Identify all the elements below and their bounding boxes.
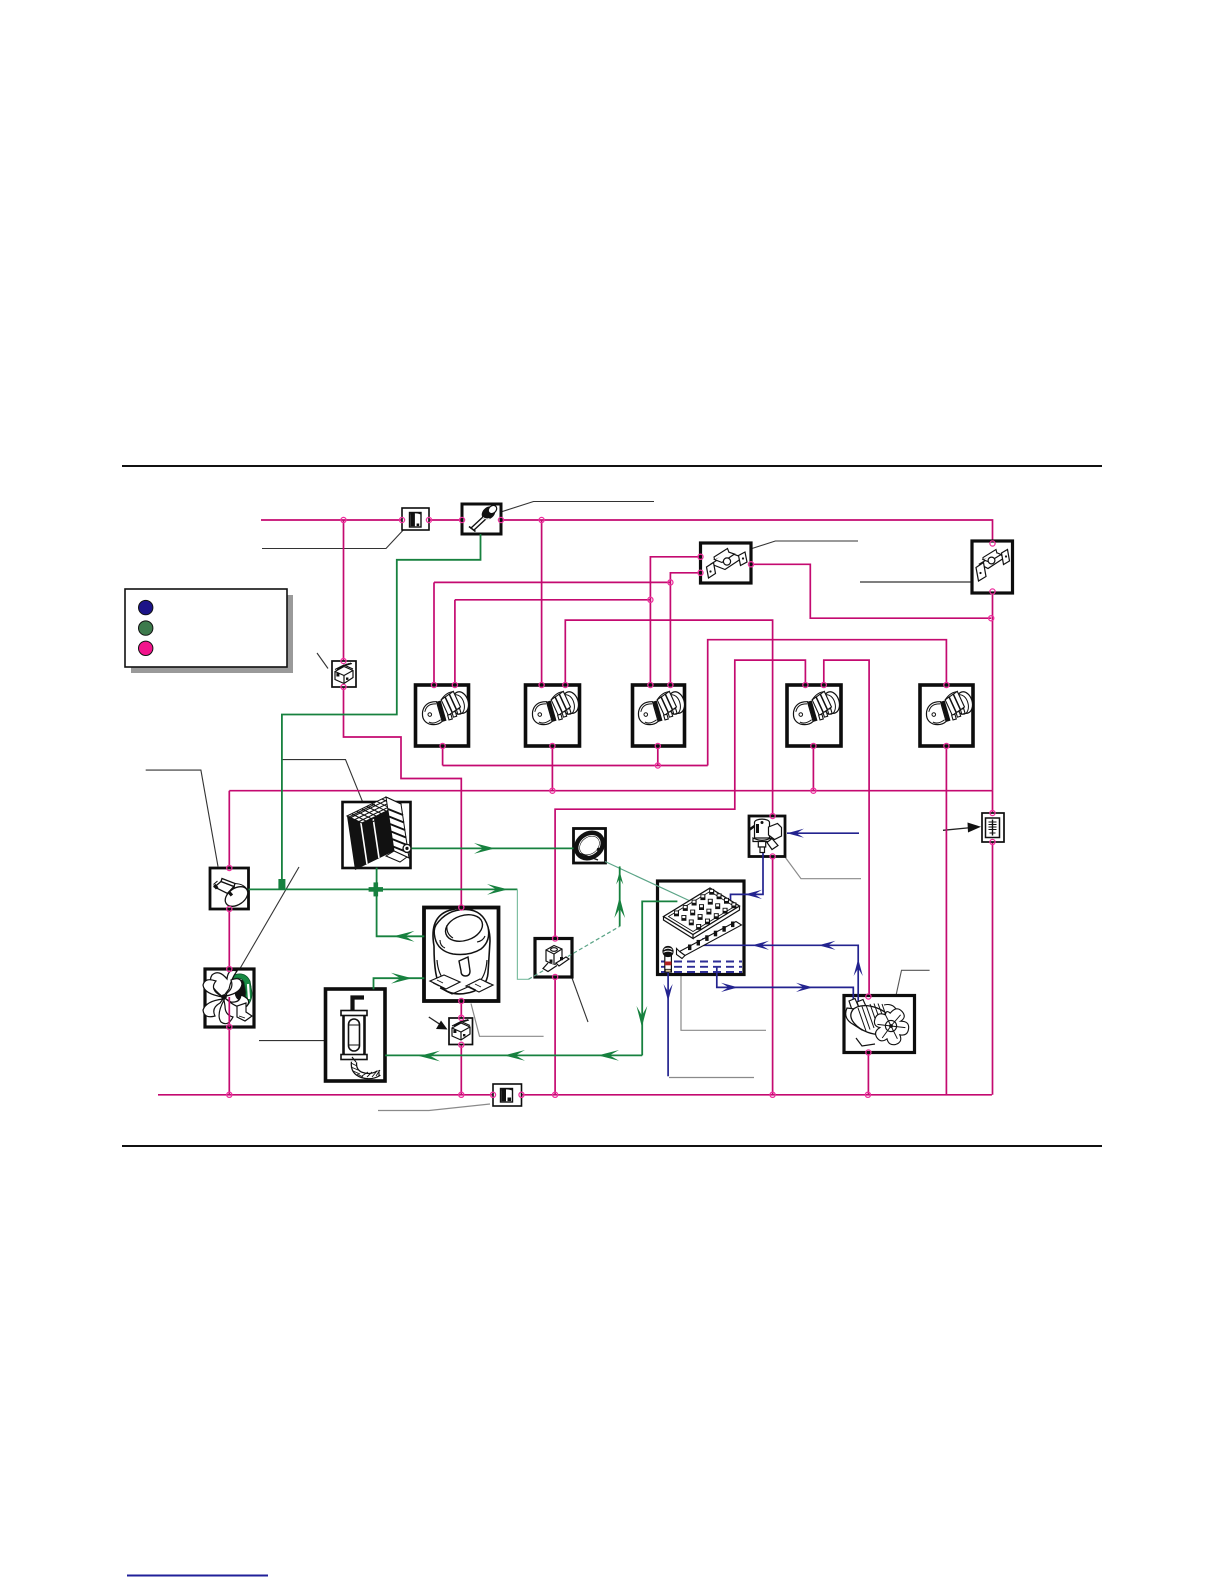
water pump box: [844, 996, 915, 1053]
fuse F1 icon: [410, 513, 422, 528]
wire drop from L1 bus to terminal block TB1: [343, 520, 345, 661]
node junction 12: [748, 562, 753, 567]
node junction 25: [944, 682, 949, 687]
leader to condenser: [282, 760, 363, 802]
flow arrow return line left 3: [419, 1051, 440, 1062]
wire L1 top bus left segment: [261, 519, 402, 521]
wire through fan box: [228, 997, 230, 1027]
node junction 34: [227, 865, 232, 870]
node junction 1: [341, 517, 346, 522]
condenser fan motor box: [205, 969, 254, 1027]
water flow arrow sump line right 1: [721, 983, 738, 992]
legend dot water: [139, 641, 153, 655]
tube header line: [249, 888, 518, 890]
node junction 11: [698, 570, 703, 575]
condenser fan motor icon: [203, 970, 254, 1023]
sump water dashes: [661, 962, 742, 973]
node junction 37: [227, 1024, 232, 1029]
wire terminal block to neutral bus: [460, 1045, 462, 1095]
node junction 5: [498, 517, 503, 522]
water flow arrow spray line left 1: [752, 941, 769, 950]
node junction 35: [227, 906, 232, 911]
water flow arrow riser to spray up: [854, 959, 863, 976]
wire contactor C5 return drop to neutral bus: [945, 746, 947, 1095]
wire water valve to neutral bus drop: [772, 857, 774, 1095]
leader to water pump: [896, 970, 930, 995]
node junction 41: [459, 1042, 464, 1047]
node junction 52: [490, 1092, 495, 1097]
node junction 53: [519, 1092, 524, 1097]
node junction 9: [989, 616, 994, 621]
wire contactor C4 terminal 2 to water pump feed: [824, 660, 869, 996]
leader to compressor: [471, 1004, 544, 1037]
contactor C5 box: [920, 685, 973, 746]
node junction 55: [770, 1092, 775, 1097]
tube header corner drop: [517, 889, 528, 979]
high-pressure cutout box: [462, 504, 501, 534]
node junction 45: [990, 839, 995, 844]
water solenoid valve icon: [753, 819, 782, 852]
flow arrow condenser to clamp right: [474, 843, 495, 854]
leader to float switch: [669, 1077, 754, 1079]
contactor C5 icon: [922, 688, 976, 727]
tube drier to compressor suction: [374, 978, 425, 989]
tube condenser to clamp: [410, 847, 573, 849]
tube riser to clamp diagonal: [619, 866, 621, 926]
wire contactor C4 return drop: [812, 746, 814, 791]
node junction 23: [803, 682, 808, 687]
toggle switch S1 box: [701, 543, 752, 583]
cleaner heater element icon: [986, 818, 1000, 838]
wire return bus upper: [443, 765, 708, 767]
contactor C3 box: [633, 685, 685, 746]
contactor C4 box: [787, 685, 841, 746]
evaporator plate icon: [664, 888, 740, 939]
terminal block TB1 icon: [335, 663, 353, 684]
contactor C1 box: [416, 685, 469, 746]
wire fan motor to neutral bus: [228, 1027, 230, 1095]
leader to drier: [259, 1040, 326, 1042]
condenser coil icon: [347, 797, 411, 870]
flow arrow evaporator drop down: [637, 1006, 648, 1027]
node junction 49: [866, 1050, 871, 1055]
node junction 46: [553, 936, 558, 941]
water solenoid valve box: [749, 816, 785, 857]
node junction 8: [990, 589, 995, 594]
wire heater to neutral bus drop: [992, 842, 994, 1095]
compressor icon: [430, 908, 493, 994]
wire return bus to bin thermostat: [228, 791, 230, 868]
node junction 29: [811, 743, 816, 748]
tube evaporator inlet: [642, 901, 677, 1055]
rocker switch S2 icon: [976, 550, 1010, 582]
flow arrow on header line right: [487, 884, 508, 895]
node junction 7: [990, 541, 995, 546]
fuse F2 icon: [501, 1089, 513, 1103]
node junction 19: [539, 682, 544, 687]
node junction 42: [770, 813, 775, 818]
wire neutral bus right segment: [522, 1094, 992, 1096]
cleaner heater box: [982, 813, 1004, 842]
tube condenser outlet drop: [376, 868, 378, 890]
leader to condenser fan motor: [240, 867, 299, 969]
tube clamp diagonal to evaporator: [605, 862, 689, 901]
wire contactor C3 return drop: [657, 746, 659, 766]
wire L1 top bus mid segment: [429, 519, 462, 521]
node junction 10: [698, 554, 703, 559]
wire drop to C1 terminal 1: [433, 582, 435, 685]
wire contactor C4 terminal 1 to start relay feed: [555, 660, 805, 938]
fuse F2 box: [493, 1084, 522, 1106]
water flow arrow to distributor: [745, 890, 762, 899]
leader to fuse F2: [378, 1104, 490, 1111]
wire switch S2 to heater drop: [992, 593, 994, 791]
node junction 50: [227, 1092, 232, 1097]
tube riser diagonal from relay area: [528, 926, 619, 979]
water pump icon: [846, 999, 909, 1047]
leader to evaporator assembly: [681, 975, 766, 1030]
node junction 20: [563, 682, 568, 687]
water flow arrow sump line right 2: [796, 983, 813, 992]
legend box: [125, 589, 287, 667]
hose clamp icon: [572, 829, 607, 863]
node junction 40: [459, 1015, 464, 1020]
tube HPCO sensing line: [282, 534, 481, 888]
bin thermostat icon: [215, 879, 252, 911]
legend dot electrical: [139, 600, 153, 614]
compressor terminal block icon: [452, 1020, 470, 1041]
wire compressor to terminal block: [460, 1001, 462, 1018]
wire return bus lower: [229, 790, 992, 792]
flow arrow to drier left: [394, 931, 415, 942]
water line spray to pump: [703, 938, 858, 1002]
node junction 13: [668, 580, 673, 585]
water flow arrow into valve: [787, 829, 804, 838]
legend dot refrigeration: [139, 621, 153, 635]
water line valve inlet: [787, 832, 859, 834]
contactor C3 icon: [634, 688, 688, 727]
top horizontal rule: [122, 465, 1102, 467]
drier box: [326, 989, 386, 1081]
water line valve outlet to distributor: [731, 852, 764, 902]
node junction 17: [431, 682, 436, 687]
terminal block TB1 box: [332, 661, 356, 687]
node junction 21: [648, 682, 653, 687]
node junction 18: [452, 682, 457, 687]
node junction 16: [341, 684, 346, 689]
compressor box: [424, 908, 499, 1002]
wire bus to contactor C5 feed: [708, 640, 947, 766]
wire heater drop into box: [992, 791, 994, 813]
node junction 4: [459, 517, 464, 522]
node junction 33: [811, 788, 816, 793]
junction tee green: [278, 879, 285, 889]
node junction 39: [459, 998, 464, 1003]
node junction 14: [648, 597, 653, 602]
junction cross green: [369, 882, 383, 896]
water line float drain: [667, 962, 669, 1076]
node junction 31: [655, 763, 660, 768]
wire neutral bus left segment: [158, 1094, 493, 1096]
leader to terminal block TB1: [317, 653, 328, 669]
rocker switch S2 box: [972, 541, 1013, 593]
node junction 56: [865, 1092, 870, 1097]
leader to start relay: [572, 978, 588, 1022]
node junction 47: [553, 974, 558, 979]
tube to compressor discharge: [377, 889, 425, 936]
flow arrow return line left 1: [598, 1050, 619, 1061]
flow arrow riser up big: [614, 897, 625, 918]
legend shadow: [131, 595, 293, 673]
tube suction return line: [385, 1054, 642, 1056]
leader arrow to cleaner heater element: [943, 823, 981, 833]
drier icon: [341, 998, 380, 1078]
node junction 30: [944, 743, 949, 748]
start relay icon: [543, 946, 569, 972]
leader to high-pressure cutout: [501, 502, 654, 513]
start relay box: [535, 939, 572, 978]
evaporator and sump box: [658, 881, 745, 975]
node junction 48: [866, 994, 871, 999]
hose clamp box: [574, 829, 606, 864]
wire bin thermostat to fan motor: [228, 909, 230, 969]
leader arrow to compressor terminal block: [429, 1017, 448, 1030]
water flow arrow float drain down: [664, 984, 673, 1001]
wire TB1 to compressor feed: [344, 687, 462, 908]
water line sump to pump: [717, 966, 854, 1002]
float switch icon: [662, 946, 673, 972]
wire switch S1 terminal 2 to contactor C3 terminal 2: [670, 573, 700, 685]
bottom horizontal rule: [122, 1145, 1102, 1147]
flow arrow riser up small: [616, 872, 623, 885]
node junction 24: [821, 682, 826, 687]
wire drop from L1 bus to contactor C2 coil: [541, 520, 543, 685]
evaporator cube pegs: [674, 889, 736, 930]
wire contactor C1 return drop: [442, 746, 444, 766]
wire bus to contactor C1 terminal 2: [455, 599, 651, 601]
leader to fuse F1: [262, 530, 404, 549]
bin thermostat box: [210, 868, 249, 909]
spray tube icon: [677, 922, 742, 959]
node junction 3: [426, 517, 431, 522]
node junction 27: [550, 743, 555, 748]
wire start relay to neutral bus drop: [554, 977, 556, 1095]
water flow arrow spray line left 2: [819, 941, 836, 950]
wire bus to contactor C1 terminal 1: [434, 581, 670, 583]
compressor terminal block box: [449, 1018, 473, 1045]
high-pressure cutout icon: [469, 504, 498, 532]
contactor C2 box: [526, 685, 580, 746]
footer link underline: [127, 1575, 268, 1577]
contactor C1 icon: [418, 688, 472, 727]
wire contactor C2 return drop: [551, 746, 553, 791]
leader to toggle switch S1: [752, 541, 858, 549]
wire switch S1 terminal 1 to contactor C3 terminal 1: [650, 557, 700, 685]
node junction 26: [440, 743, 445, 748]
node junction 6: [539, 517, 544, 522]
flow arrow suction into compressor right: [391, 973, 412, 984]
contactor C4 icon: [789, 688, 843, 727]
node junction 54: [553, 1092, 558, 1097]
wire drop to C1 terminal 2: [454, 600, 456, 685]
node junction 43: [770, 854, 775, 859]
wire contactor C2 terminal 2 to water valve feed: [565, 620, 772, 816]
node junction 28: [655, 743, 660, 748]
node junction 15: [341, 658, 346, 663]
fuse F1 box: [402, 508, 429, 530]
wire L1 top bus right segment to switch S2: [501, 520, 993, 541]
node junction 38: [459, 905, 464, 910]
node junction 51: [459, 1092, 464, 1097]
leader to rocker switch S2: [860, 581, 971, 583]
flow arrow return line left 2: [504, 1050, 525, 1061]
condenser box: [343, 802, 411, 868]
node junction 22: [668, 682, 673, 687]
leader to bin thermostat: [146, 770, 218, 866]
toggle switch S1 icon: [707, 552, 748, 579]
node junction 36: [227, 966, 232, 971]
leader to water solenoid valve: [785, 857, 861, 879]
contactor C2 icon: [528, 688, 582, 727]
node junction 2: [399, 517, 404, 522]
node junction 32: [550, 788, 555, 793]
wire water pump to neutral bus drop: [867, 1053, 869, 1095]
node junction 44: [990, 810, 995, 815]
wire switch S1 output to S2 drop bus: [751, 564, 991, 618]
